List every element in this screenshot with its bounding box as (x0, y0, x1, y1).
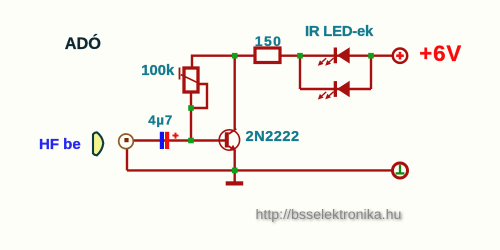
svg-text:2N2222: 2N2222 (246, 129, 300, 145)
svg-text:HF be: HF be (39, 136, 81, 153)
svg-text:4µ7: 4µ7 (148, 112, 173, 127)
svg-text:100k: 100k (141, 63, 175, 79)
svg-text:+6V: +6V (419, 41, 462, 66)
svg-text:ADÓ: ADÓ (65, 34, 101, 53)
svg-text:IR LED-ek: IR LED-ek (305, 24, 374, 40)
svg-text:http://bsselektronika.hu: http://bsselektronika.hu (256, 207, 402, 223)
svg-text:150: 150 (255, 33, 283, 49)
